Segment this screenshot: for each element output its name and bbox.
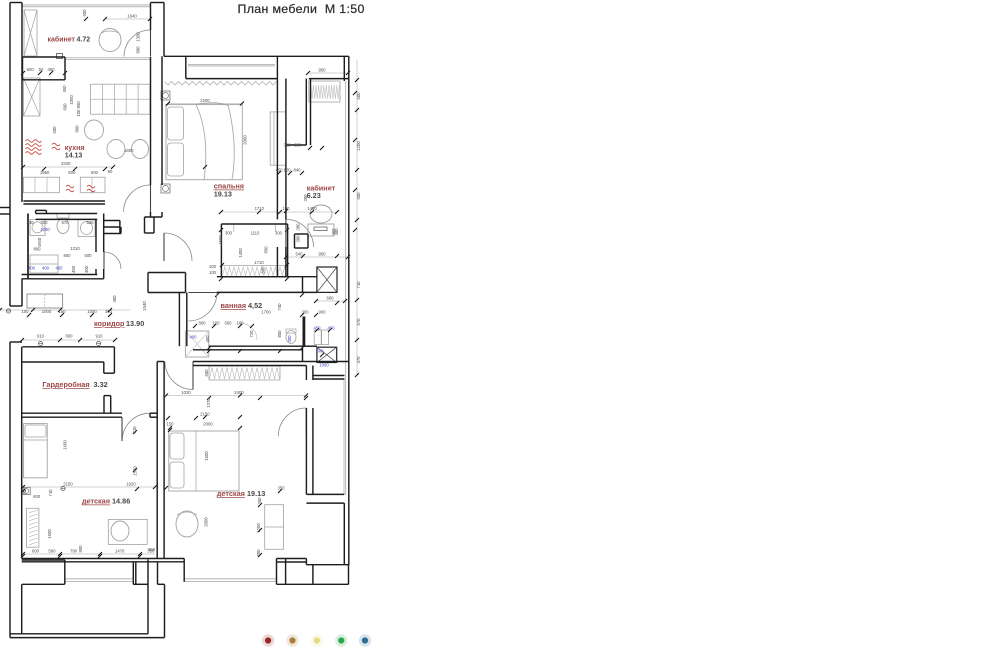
svg-text:1710: 1710	[255, 206, 265, 211]
svg-text:350: 350	[277, 486, 285, 491]
svg-text:1300: 1300	[136, 32, 141, 42]
svg-text:2000: 2000	[203, 422, 213, 427]
svg-text:2000: 2000	[204, 517, 209, 527]
svg-text:100: 100	[21, 309, 29, 314]
svg-text:300: 300	[301, 310, 309, 315]
svg-text:400: 400	[28, 266, 36, 271]
svg-text:1490: 1490	[307, 206, 317, 211]
svg-text:600: 600	[91, 170, 99, 175]
svg-text:50: 50	[39, 67, 44, 72]
svg-text:800: 800	[65, 334, 73, 339]
svg-text:4.72: 4.72	[77, 36, 91, 43]
svg-text:600: 600	[316, 349, 324, 354]
svg-text:380: 380	[296, 223, 301, 231]
svg-text:600: 600	[82, 9, 87, 17]
svg-text:670: 670	[61, 220, 69, 225]
svg-text:1200: 1200	[40, 227, 50, 232]
svg-text:300: 300	[256, 549, 261, 557]
svg-text:800: 800	[33, 247, 41, 252]
svg-text:3.32: 3.32	[94, 380, 108, 389]
svg-text:80: 80	[108, 169, 113, 174]
svg-text:740: 740	[277, 303, 282, 311]
svg-text:1600: 1600	[204, 451, 209, 461]
svg-text:670: 670	[356, 318, 361, 326]
svg-text:710: 710	[356, 281, 361, 289]
svg-text:1110: 1110	[251, 231, 260, 236]
svg-text:560: 560	[224, 321, 232, 326]
svg-text:1530: 1530	[133, 466, 138, 476]
svg-text:600: 600	[326, 296, 334, 301]
svg-text:2150: 2150	[63, 482, 73, 487]
svg-text:150: 150	[58, 309, 66, 314]
svg-text:450: 450	[327, 326, 335, 331]
svg-text:2200: 2200	[200, 98, 210, 103]
svg-text:460: 460	[331, 228, 336, 236]
svg-text:4,52: 4,52	[248, 301, 262, 310]
svg-text:13.90: 13.90	[126, 319, 144, 328]
svg-text:540: 540	[295, 252, 303, 257]
svg-text:2150: 2150	[200, 412, 210, 417]
svg-text:430: 430	[26, 220, 34, 225]
svg-text:2400: 2400	[234, 390, 244, 395]
svg-text:ванная: ванная	[221, 301, 247, 310]
svg-text:450: 450	[313, 326, 321, 331]
svg-text:14.13: 14.13	[65, 153, 83, 160]
svg-text:450: 450	[275, 168, 283, 173]
svg-text:детская: детская	[217, 489, 245, 498]
svg-text:600: 600	[63, 103, 68, 111]
svg-text:710: 710	[48, 489, 53, 497]
svg-text:810: 810	[132, 426, 137, 434]
svg-text:1470: 1470	[115, 549, 125, 554]
svg-text:600: 600	[356, 92, 361, 100]
svg-text:1950: 1950	[40, 170, 50, 175]
svg-text:150: 150	[166, 422, 174, 427]
svg-text:1620: 1620	[126, 482, 136, 487]
svg-text:1370: 1370	[206, 398, 211, 408]
svg-text:коридор: коридор	[94, 319, 125, 328]
svg-text:650: 650	[294, 143, 302, 148]
svg-text:300: 300	[225, 231, 233, 236]
svg-text:300: 300	[287, 335, 292, 343]
svg-text:790: 790	[70, 549, 78, 554]
svg-text:14.86: 14.86	[112, 497, 130, 506]
svg-text:800: 800	[136, 46, 141, 54]
svg-text:600: 600	[52, 126, 57, 134]
svg-text:300: 300	[40, 220, 48, 225]
svg-text:100 850: 100 850	[76, 101, 81, 117]
svg-text:600: 600	[204, 369, 209, 377]
svg-text:600: 600	[68, 170, 76, 175]
svg-text:800: 800	[63, 253, 71, 258]
svg-text:950: 950	[318, 252, 326, 257]
svg-text:160: 160	[236, 321, 244, 326]
svg-text:2000: 2000	[243, 135, 248, 145]
svg-text:400: 400	[189, 335, 197, 340]
svg-text:кабинет: кабинет	[48, 35, 76, 43]
svg-text:1200: 1200	[356, 141, 361, 151]
svg-text:450: 450	[71, 265, 76, 273]
svg-text:520: 520	[86, 220, 94, 225]
svg-text:1000: 1000	[42, 309, 52, 314]
svg-text:840: 840	[293, 168, 301, 173]
svg-text:720: 720	[249, 330, 254, 338]
svg-text:1000: 1000	[319, 363, 329, 368]
svg-text:300: 300	[84, 265, 89, 273]
svg-text:560: 560	[48, 549, 56, 554]
svg-text:400: 400	[112, 295, 117, 303]
svg-text:100: 100	[282, 206, 290, 211]
svg-text:1700: 1700	[261, 310, 271, 315]
svg-text:300: 300	[105, 309, 113, 314]
svg-text:1030: 1030	[181, 390, 191, 395]
svg-text:19.13: 19.13	[214, 190, 232, 199]
svg-text:2330: 2330	[61, 161, 71, 166]
svg-text:600: 600	[33, 494, 41, 499]
svg-text:1000: 1000	[87, 309, 97, 314]
svg-text:1600: 1600	[47, 529, 52, 539]
svg-text:850: 850	[264, 246, 269, 254]
svg-text:800: 800	[277, 330, 282, 338]
svg-text:800: 800	[75, 125, 80, 133]
svg-text:кухня: кухня	[65, 145, 85, 152]
svg-text:950: 950	[318, 68, 326, 73]
svg-text:1050: 1050	[69, 95, 74, 105]
svg-text:100: 100	[209, 270, 217, 275]
svg-text:План мебели М 1:50: План мебели М 1:50	[238, 2, 365, 16]
svg-text:1710: 1710	[254, 260, 264, 265]
svg-text:100: 100	[209, 264, 217, 269]
svg-text:1540: 1540	[142, 301, 147, 311]
svg-text:300: 300	[275, 231, 283, 236]
svg-text:450: 450	[205, 335, 210, 343]
svg-text:600: 600	[356, 192, 361, 200]
svg-text:1200: 1200	[256, 523, 261, 533]
svg-text:1800: 1800	[124, 148, 134, 153]
svg-text:450: 450	[47, 67, 55, 72]
svg-text:500: 500	[84, 253, 92, 258]
svg-text:470: 470	[356, 356, 361, 364]
svg-text:600: 600	[27, 67, 35, 72]
svg-text:300: 300	[296, 235, 301, 243]
svg-text:910: 910	[95, 334, 103, 339]
svg-text:500: 500	[261, 266, 266, 274]
svg-text:19.13: 19.13	[247, 489, 265, 498]
svg-text:1400: 1400	[238, 248, 243, 258]
svg-text:400: 400	[55, 266, 63, 271]
svg-text:800: 800	[198, 321, 206, 326]
svg-text:100: 100	[283, 168, 291, 173]
svg-text:900: 900	[318, 310, 326, 315]
svg-text:1640: 1640	[127, 14, 137, 19]
svg-text:1310: 1310	[70, 246, 80, 251]
svg-text:1600: 1600	[63, 440, 68, 450]
svg-text:1500: 1500	[218, 235, 223, 245]
svg-text:600: 600	[32, 549, 40, 554]
svg-text:Гардеробная: Гардеробная	[42, 380, 89, 389]
svg-text:800: 800	[78, 545, 83, 553]
svg-text:детская: детская	[82, 497, 110, 506]
svg-text:450: 450	[62, 85, 67, 93]
svg-text:160: 160	[212, 321, 220, 326]
svg-text:400: 400	[42, 266, 50, 271]
svg-text:910: 910	[37, 334, 45, 339]
svg-text:6.23: 6.23	[307, 191, 321, 200]
svg-text:350: 350	[148, 547, 156, 552]
svg-text:300: 300	[283, 143, 291, 148]
